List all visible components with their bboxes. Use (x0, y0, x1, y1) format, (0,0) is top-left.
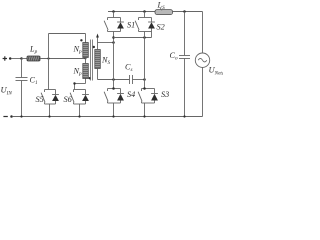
node dot Co top (183, 10, 186, 13)
node dot center tap (85, 58, 87, 60)
wire ac leg top (202, 12, 204, 54)
wire Np2 bottom jog to S6 (75, 79, 86, 90)
terminal minus input negative (3, 116, 7, 117)
diode of S4 (117, 89, 124, 104)
current arrow at Ns top (96, 34, 99, 43)
wire top rail (108, 11, 155, 13)
node dot S2 top (143, 10, 146, 13)
svg-text:Cs: Cs (125, 63, 133, 74)
polarity dot Ns (93, 46, 95, 48)
node dot C1 tap (20, 57, 23, 60)
svg-text:S4: S4 (127, 90, 135, 99)
terminal + input positive (3, 56, 7, 60)
wire Ns bottom to Cs (98, 69, 130, 80)
svg-text:UIN: UIN (1, 85, 13, 97)
capacitor Cs (130, 75, 145, 84)
transformer core (91, 40, 93, 81)
node dot input plus (9, 57, 12, 60)
capacitor Co (179, 12, 190, 117)
node dot C1 bottom (20, 115, 22, 117)
svg-text:S6: S6 (64, 95, 73, 104)
wire C1 tap to Lp (22, 58, 28, 60)
svg-text:S3: S3 (161, 90, 169, 99)
svg-text:S2: S2 (157, 22, 165, 31)
diode of S2 (148, 18, 155, 32)
switch S3 (138, 89, 154, 104)
diode of S3 (151, 89, 158, 104)
svg-text:Co: Co (170, 51, 178, 62)
node dot Co bottom (183, 115, 185, 117)
wire center tap stub (85, 58, 87, 64)
node dot Ns top wire at node X (112, 41, 115, 44)
diode of S1 (117, 18, 124, 32)
wire top rail right of Ls (173, 11, 203, 13)
wire S2 diode stub (151, 32, 153, 38)
switch S5 (41, 90, 55, 105)
wire S2 column vertical (144, 32, 146, 89)
node dot S4 top (112, 87, 115, 90)
wire Lp to transformer center tap (40, 58, 86, 60)
switch S2 (135, 18, 151, 32)
node dot S5 bottom (48, 115, 50, 117)
node dot S3 bottom (143, 115, 145, 117)
wire Q horizontal (114, 37, 152, 39)
diode of S6 (82, 90, 89, 105)
diode of S5 (52, 90, 59, 105)
svg-text:C1: C1 (30, 76, 38, 87)
node dot main wire at S5 column (47, 57, 49, 59)
polarity dot Np1 (80, 39, 82, 41)
switch S1 (104, 18, 120, 32)
inductor Ls (155, 10, 173, 15)
wire node X vertical (113, 32, 115, 89)
wire S2 drop (144, 12, 146, 18)
svg-text:S5: S5 (36, 95, 44, 104)
wire S5 column down (48, 59, 50, 90)
wire Ns top to node X (98, 43, 114, 50)
wire S5 to bottom rail (49, 104, 51, 117)
node dot Cs wire at S2 column (143, 78, 146, 81)
svg-text:NS: NS (101, 56, 110, 67)
switch S6 (70, 90, 85, 105)
wire top loop horizontal (49, 33, 86, 35)
node dot S4 bottom (112, 115, 114, 117)
svg-text:UNetz: UNetz (209, 65, 224, 77)
node dot S6 bottom (78, 115, 80, 117)
wire S1 drop (113, 12, 115, 18)
wire top loop down to Np1 (85, 34, 87, 43)
polarity dot Np2 (89, 77, 91, 79)
svg-text:Lp: Lp (29, 45, 38, 56)
ac source U Netz (195, 53, 209, 67)
svg-text:Np: Np (73, 67, 82, 78)
node dot wire Q at node X (112, 36, 115, 39)
capacitor C1 (16, 59, 28, 117)
node dot S1 top (112, 10, 115, 13)
wire top loop vertical (48, 34, 50, 59)
transformer winding Np2 (83, 64, 89, 79)
node dot wire Q at S2 column (143, 36, 146, 39)
node dot Cs wire at node X column (112, 78, 115, 81)
transformer winding Np1 (83, 43, 89, 58)
inductor Lp (27, 56, 40, 61)
wire input plus to C1 tap (11, 58, 21, 60)
wire S4 to bottom rail (113, 103, 115, 117)
svg-text:S1: S1 (127, 21, 135, 30)
wire ac leg bottom (202, 67, 204, 116)
node dot jog corner (73, 82, 75, 84)
wire bottom rail (13, 116, 203, 118)
transformer winding Ns (95, 50, 101, 69)
wire S6 to bottom rail (79, 104, 81, 117)
node dot input minus (10, 115, 13, 118)
switch S4 (104, 89, 120, 104)
arrow tick under LS label (160, 8, 162, 10)
svg-text:Np: Np (73, 45, 82, 56)
wire S3 to bottom rail (144, 103, 146, 117)
node dot S3 top (143, 87, 146, 90)
